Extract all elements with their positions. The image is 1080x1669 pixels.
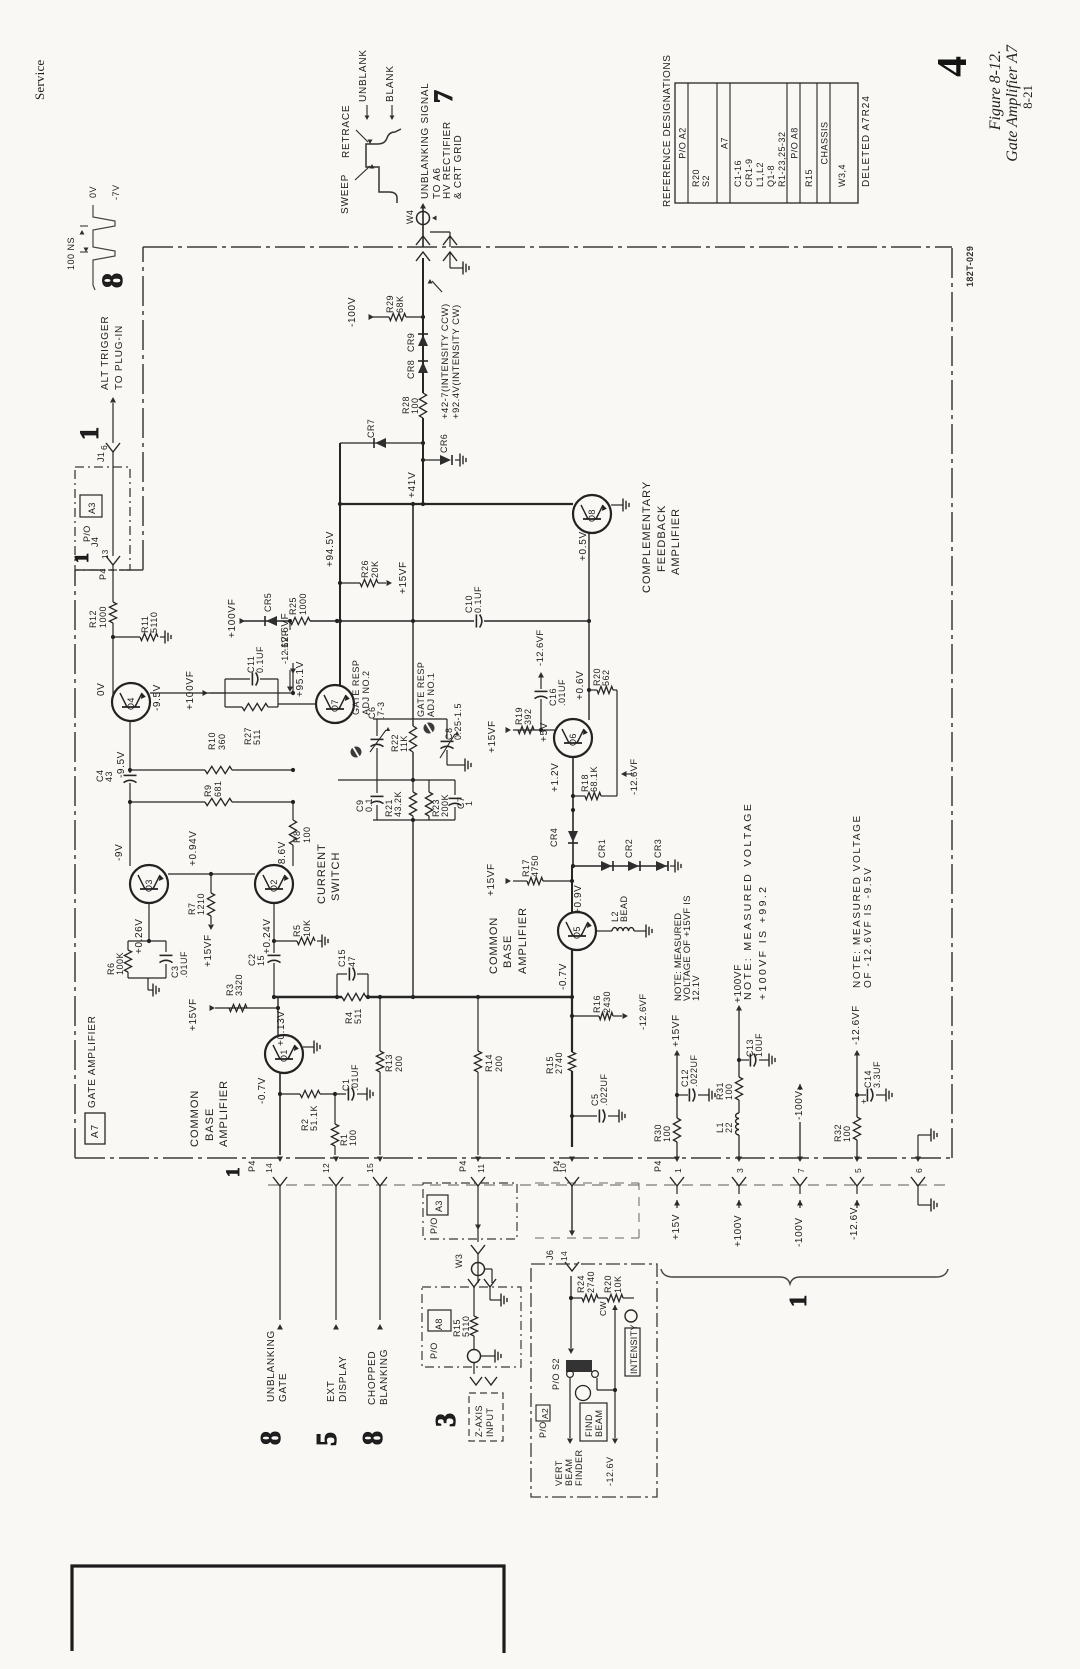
svg-text:NOTE: MEASURED VOLTAGE: NOTE: MEASURED VOLTAGE <box>852 814 863 988</box>
svg-text:CW: CW <box>598 1301 608 1316</box>
resistor R10 360 <box>130 769 205 771</box>
resistor R14 200 <box>477 997 479 1051</box>
ground of R6/C3 <box>147 978 149 990</box>
svg-text:R15: R15 <box>804 169 814 187</box>
svg-text:-12.6V: -12.6V <box>605 1456 615 1486</box>
wire through P/O A3 box <box>477 1186 479 1242</box>
svg-text:AMPLIFIER: AMPLIFIER <box>670 508 682 575</box>
svg-text:-12.6VF: -12.6VF <box>638 993 649 1030</box>
capacitor C5 .022UF to ground <box>572 1115 597 1117</box>
branch to CRT grid line <box>430 231 450 233</box>
diode CR1 <box>601 861 612 871</box>
svg-text:+15VF: +15VF <box>203 934 214 967</box>
svg-text:511: 511 <box>252 729 262 745</box>
svg-text:0.1: 0.1 <box>364 798 374 812</box>
svg-text:CHASSIS: CHASSIS <box>820 121 830 164</box>
svg-text:R5: R5 <box>292 924 302 937</box>
svg-text:AMPLIFIER: AMPLIFIER <box>517 907 529 974</box>
svg-text:1000: 1000 <box>298 593 308 615</box>
svg-text:R25: R25 <box>288 597 298 615</box>
A7 board boundary (dash-dot border) <box>143 246 952 248</box>
svg-text:COMPLEMENTARY: COMPLEMENTARY <box>641 481 653 593</box>
node R11 junction <box>111 635 115 639</box>
connector J1 pin 6 <box>106 443 120 452</box>
svg-text:13: 13 <box>101 549 110 559</box>
potentiometer R20 10K <box>607 1294 623 1301</box>
svg-text:-9.5V: -9.5V <box>116 751 127 778</box>
resistor R2 51.1K <box>280 1093 300 1095</box>
feedback branch to R18 <box>616 690 618 796</box>
svg-text:43.2K: 43.2K <box>393 791 403 817</box>
gate response adjust network rails <box>412 621 414 726</box>
chopped blanking input line <box>379 1186 381 1320</box>
svg-text:R29: R29 <box>385 295 395 313</box>
svg-text:+100VF: +100VF <box>185 670 196 710</box>
-12.6VF stub below R25 line <box>289 621 291 630</box>
svg-text:GATE: GATE <box>278 1373 289 1402</box>
svg-text:0V: 0V <box>96 683 107 696</box>
resistor R17 4750 from +15VF <box>513 880 527 882</box>
svg-text:-100V: -100V <box>794 1090 805 1120</box>
svg-text:R26: R26 <box>360 560 370 578</box>
svg-text:R14: R14 <box>484 1054 494 1072</box>
connector P4 pin 14 (unblanking gate) <box>277 1157 283 1163</box>
svg-text:8-21: 8-21 <box>1020 85 1035 109</box>
Q6 collector column <box>588 621 590 720</box>
100 NS width arrows <box>80 251 88 253</box>
svg-text:VERT: VERT <box>554 1460 564 1486</box>
svg-text:R12: R12 <box>88 610 98 628</box>
sweep gate waveform (SWEEP/RETRACE) <box>366 129 401 203</box>
connector P4 pin 15 (chopped blanking) <box>377 1157 383 1163</box>
switch P/O S2 <box>566 1360 592 1372</box>
svg-text:GATE AMPLIFIER: GATE AMPLIFIER <box>87 1015 98 1108</box>
svg-text:+15VF: +15VF <box>486 863 497 896</box>
ground after CR3 <box>669 865 671 867</box>
resistor R31 100 <box>735 1077 742 1100</box>
svg-text:8: 8 <box>358 1431 389 1445</box>
svg-text:INTENSITY: INTENSITY <box>629 1324 639 1374</box>
resistor R8 100 <box>292 802 294 820</box>
transistor Q3 <box>130 865 168 903</box>
wire R24 node down to switch <box>570 1298 572 1348</box>
svg-text:SWEEP: SWEEP <box>340 174 351 214</box>
coax W3 <box>477 1254 479 1283</box>
svg-text:+15V: +15V <box>671 1214 682 1240</box>
svg-text:A3: A3 <box>87 502 97 514</box>
main emitter bus <box>272 996 342 998</box>
power entry pin 1 (+15V) <box>674 1157 680 1163</box>
svg-text:Service: Service <box>32 60 47 100</box>
svg-text:11K: 11K <box>399 735 409 752</box>
svg-text:COMMON: COMMON <box>189 1090 201 1147</box>
connector P4 pin 11 <box>475 1157 481 1163</box>
diode CR6 to ground <box>423 459 440 461</box>
svg-text:P4: P4 <box>247 1160 257 1172</box>
svg-text:P/O: P/O <box>429 1217 439 1234</box>
box P/O A3 <box>423 1183 517 1239</box>
svg-text:-100V: -100V <box>794 1217 805 1247</box>
svg-text:+15VF: +15VF <box>188 998 199 1031</box>
svg-text:BASE: BASE <box>502 935 514 968</box>
resistor R1 100 <box>334 1094 336 1124</box>
label INTENSITY (boxed) <box>625 1328 640 1376</box>
inductor L2 BEAD to ground <box>596 930 612 932</box>
svg-text:Z-AXIS: Z-AXIS <box>474 1405 484 1437</box>
rail to current switch <box>129 802 131 866</box>
main rail from +41V node down <box>412 504 414 621</box>
svg-text:Q1: Q1 <box>279 1049 289 1062</box>
svg-text:-0.7V: -0.7V <box>558 963 569 990</box>
svg-text:22: 22 <box>724 1122 734 1133</box>
svg-text:+15VF: +15VF <box>487 720 498 753</box>
svg-text:UNBLANKING: UNBLANKING <box>266 1330 277 1402</box>
svg-text:FIND: FIND <box>584 1414 594 1437</box>
svg-text:-0.7V: -0.7V <box>257 1077 268 1104</box>
svg-text:5: 5 <box>312 1432 343 1446</box>
transistor Q7 <box>316 685 354 723</box>
svg-text:GATE RESP: GATE RESP <box>416 662 426 717</box>
svg-text:CR9: CR9 <box>406 333 416 352</box>
svg-text:P4: P4 <box>98 568 108 580</box>
connector box P/O A3 (J1/J4) <box>75 467 130 570</box>
-100V feed below border <box>799 1186 801 1194</box>
coax W4 <box>417 212 430 225</box>
svg-text:+15VF: +15VF <box>398 561 409 594</box>
svg-text:6: 6 <box>99 445 109 450</box>
svg-text:100: 100 <box>410 397 420 414</box>
label FIND BEAM (boxed) <box>580 1403 607 1441</box>
svg-text:+41V: +41V <box>407 472 418 498</box>
-12.6V feed below border <box>856 1186 858 1194</box>
Q8 ground <box>611 504 618 506</box>
unblanking gate input line <box>279 1186 281 1320</box>
ext display input line <box>335 1186 337 1320</box>
svg-text:R13: R13 <box>384 1054 394 1072</box>
svg-text:REFERENCE DESIGNATIONS: REFERENCE DESIGNATIONS <box>662 55 673 207</box>
svg-text:R9: R9 <box>203 784 213 797</box>
svg-text:DELETED A7R24: DELETED A7R24 <box>861 95 872 187</box>
svg-text:C1-16: C1-16 <box>733 160 743 187</box>
resistor R21 43.2K (inline) <box>409 792 416 816</box>
svg-text:392: 392 <box>523 708 533 725</box>
capacitor C7 1 <box>454 780 456 795</box>
J6 dashed block <box>535 1182 639 1184</box>
svg-text:P4: P4 <box>458 1160 468 1172</box>
unblanking output wire with arrow <box>422 207 424 247</box>
svg-text:100K: 100K <box>115 952 125 975</box>
svg-text:P/O: P/O <box>538 1421 548 1438</box>
svg-text:5110: 5110 <box>461 1316 471 1337</box>
svg-text:0V: 0V <box>88 186 98 198</box>
connector chevrons at border (output) <box>416 236 430 245</box>
svg-text:A3: A3 <box>434 1200 444 1212</box>
svg-text:FINDER: FINDER <box>574 1450 584 1487</box>
svg-text:+94.5V: +94.5V <box>325 531 336 567</box>
svg-text:-12.6VF: -12.6VF <box>629 758 640 795</box>
svg-text:68K: 68K <box>395 295 405 313</box>
svg-text:-12.6VF: -12.6VF <box>851 1005 862 1045</box>
svg-text:10K: 10K <box>613 1275 623 1293</box>
wire C11/R27 to Q7 base <box>278 703 317 705</box>
svg-text:W3,4: W3,4 <box>837 164 847 187</box>
svg-text:C15: C15 <box>337 949 347 967</box>
capacitor C15 47 parallel loop <box>336 974 338 997</box>
svg-text:1: 1 <box>786 1295 812 1307</box>
transistor Q4 <box>112 683 150 721</box>
svg-text:+0.9V: +0.9V <box>573 885 584 914</box>
svg-text:+100VF IS +99.2: +100VF IS +99.2 <box>757 885 769 1000</box>
svg-text:+42-7(INTENSITY CCW): +42-7(INTENSITY CCW) <box>440 303 451 419</box>
-12.6V output <box>614 1390 616 1438</box>
svg-text:.01UF: .01UF <box>350 1064 360 1091</box>
switch right pole wire <box>596 1378 598 1390</box>
capacitor C4 43 <box>129 770 131 773</box>
Q1 ground <box>303 1046 309 1048</box>
resistor R11 5110 to ground <box>113 636 140 638</box>
diode CR3 <box>656 861 667 871</box>
svg-text:J6: J6 <box>545 1250 555 1260</box>
svg-text:-12.6V: -12.6V <box>849 1207 860 1240</box>
svg-text:CR6: CR6 <box>439 434 449 453</box>
board label A7 GATE AMPLIFIER <box>85 1113 105 1144</box>
Q3 emitter to R6/C3 <box>148 903 150 941</box>
svg-text:+0.26V: +0.26V <box>134 918 145 954</box>
svg-text:AMPLIFIER: AMPLIFIER <box>218 1080 230 1147</box>
svg-text:7: 7 <box>429 90 458 103</box>
svg-text:CR4: CR4 <box>549 828 559 847</box>
svg-text:FEEDBACK: FEEDBACK <box>656 505 668 572</box>
diode CR9 <box>418 335 428 346</box>
svg-text:UNBLANK: UNBLANK <box>358 49 369 102</box>
svg-text:8: 8 <box>256 1431 287 1445</box>
resistor R22 11K (inline) <box>409 726 416 752</box>
coax jack in A8 <box>468 1350 481 1363</box>
diode CR2 <box>628 861 639 871</box>
transistor Q2 <box>255 865 293 903</box>
capacitor C9 0.1 <box>376 780 378 793</box>
svg-text:1210: 1210 <box>196 893 206 915</box>
output arrow from switch <box>569 1378 571 1438</box>
-12.6VF arrow at feedback branch <box>621 771 627 777</box>
svg-text:+95.1V: +95.1V <box>295 661 306 697</box>
svg-text:P/O A2: P/O A2 <box>678 127 688 159</box>
svg-text:562: 562 <box>601 669 611 686</box>
main column Q6 emitter to Q5 <box>571 866 573 913</box>
svg-text:CR3: CR3 <box>653 839 663 858</box>
svg-text:R16: R16 <box>592 995 602 1013</box>
svg-text:1: 1 <box>71 553 93 563</box>
svg-text:Q4: Q4 <box>126 697 136 710</box>
+100V feed below border <box>738 1186 740 1194</box>
resistor R23 200K <box>428 780 430 792</box>
svg-text:3: 3 <box>431 1413 462 1427</box>
svg-text:+1.2V: +1.2V <box>550 763 561 792</box>
svg-text:ADJ NO.1: ADJ NO.1 <box>426 672 436 717</box>
svg-text:BEAM: BEAM <box>564 1458 574 1486</box>
svg-text:CHOPPED: CHOPPED <box>367 1351 378 1405</box>
+15V feed below border <box>676 1186 678 1194</box>
svg-text:15: 15 <box>256 955 266 966</box>
C10 coupling line +100VF/CR5/R25 <box>243 620 290 622</box>
svg-text:TO PLUG-IN: TO PLUG-IN <box>114 325 125 390</box>
svg-text:Figure 8-12.: Figure 8-12. <box>987 50 1004 131</box>
svg-text:100: 100 <box>662 1125 672 1142</box>
Q2 emitter node <box>273 903 275 941</box>
svg-text:5110: 5110 <box>149 612 159 633</box>
svg-text:-7V: -7V <box>111 184 121 200</box>
box Z-AXIS INPUT <box>469 1393 503 1441</box>
svg-text:100: 100 <box>348 1129 358 1146</box>
trigger pulse waveform (100 NS) <box>93 205 115 290</box>
svg-text:Q2: Q2 <box>269 879 279 892</box>
capacitor C13 10UF <box>739 1059 749 1061</box>
Q1 emitter wire <box>279 1073 281 1155</box>
resistor R32 100 <box>853 1117 860 1140</box>
svg-text:EXT: EXT <box>326 1380 337 1402</box>
connector chevron below A3 box <box>471 1245 485 1254</box>
svg-text:200: 200 <box>394 1055 404 1072</box>
resistor R15 2740 (inline) <box>568 1052 575 1071</box>
+100VF feed to C11/R27 <box>210 692 225 694</box>
resistor R19 392 from +15VF <box>513 729 555 731</box>
resistor R25 1000 <box>290 617 310 624</box>
svg-text:+100V: +100V <box>733 1215 744 1247</box>
svg-text:14: 14 <box>264 1163 274 1173</box>
resistor R20 562 <box>589 689 597 691</box>
resistor R5 10K to ground <box>274 940 297 942</box>
svg-text:P4: P4 <box>653 1160 663 1172</box>
R20 wiper <box>612 1305 618 1310</box>
capacitor C1 .01UF to ground <box>347 1088 349 1101</box>
reference designations table <box>675 83 858 203</box>
svg-text:GATE RESP: GATE RESP <box>351 660 361 715</box>
resistor R4 511 on bus <box>342 993 366 1000</box>
svg-text:14: 14 <box>559 1251 569 1261</box>
svg-text:-12.6VF: -12.6VF <box>280 630 290 664</box>
svg-text:12.1V: 12.1V <box>691 975 702 1001</box>
svg-text:CR1: CR1 <box>597 839 607 858</box>
svg-text:51.1K: 51.1K <box>309 1105 319 1131</box>
wire pin10 to J6 <box>571 1186 573 1232</box>
svg-text:W4: W4 <box>405 210 415 224</box>
svg-text:8: 8 <box>96 273 129 288</box>
svg-text:15: 15 <box>365 1163 375 1173</box>
svg-text:Q8: Q8 <box>587 509 597 522</box>
svg-text:P/O A8: P/O A8 <box>790 127 800 159</box>
svg-text:P/O S2: P/O S2 <box>551 1358 561 1390</box>
svg-text:OF -12.6VF IS -9.5V: OF -12.6VF IS -9.5V <box>863 866 874 988</box>
svg-text:CR5: CR5 <box>263 593 273 612</box>
rail from network to bus <box>412 820 414 997</box>
svg-text:2740: 2740 <box>586 1271 596 1293</box>
svg-text:Gate Amplifier A7: Gate Amplifier A7 <box>1004 44 1021 162</box>
svg-text:-9.5V: -9.5V <box>152 684 163 711</box>
capacitor C10 0.1UF <box>475 615 477 628</box>
collector bus +41V line <box>340 503 573 505</box>
variable capacitor C6 .7-3 <box>376 719 378 736</box>
diode CR4 <box>568 831 578 842</box>
svg-text:S2: S2 <box>701 175 711 187</box>
Q5 emitter column <box>571 950 573 1052</box>
svg-text:.01UF: .01UF <box>179 951 189 978</box>
svg-text:200: 200 <box>494 1055 504 1072</box>
Z-axis connector chevrons <box>470 1377 482 1385</box>
beam finder lamp <box>576 1386 591 1401</box>
svg-text:+100VF: +100VF <box>227 598 238 638</box>
Q4 collector line <box>150 692 293 694</box>
resistor R30 100 <box>673 1118 680 1142</box>
svg-text:-9V: -9V <box>114 844 125 861</box>
svg-text:0.25-1.5: 0.25-1.5 <box>453 703 463 740</box>
svg-text:0.1UF: 0.1UF <box>255 646 265 673</box>
power entry pin 7 (-100V) <box>797 1157 803 1163</box>
diode CR5 <box>266 616 277 626</box>
svg-text:BEAM: BEAM <box>594 1409 604 1437</box>
svg-text:6: 6 <box>914 1168 924 1173</box>
front panel knob (intensity) <box>625 1310 637 1322</box>
svg-text:CR1-9: CR1-9 <box>744 158 754 187</box>
svg-text:.022UF: .022UF <box>689 1054 699 1087</box>
svg-text:CR7: CR7 <box>366 419 376 438</box>
node CR clamp line <box>571 864 575 868</box>
resistor R26 20K to +15VF <box>340 582 360 584</box>
svg-text:A8: A8 <box>434 1318 444 1330</box>
svg-text:A7: A7 <box>720 137 730 149</box>
svg-text:.7-3: .7-3 <box>376 701 386 719</box>
svg-text:R1-23,25-32: R1-23,25-32 <box>777 131 787 187</box>
connector mating line P4 (dashed) <box>268 1184 948 1186</box>
svg-text:5: 5 <box>853 1168 863 1173</box>
svg-text:+0.6V: +0.6V <box>575 671 586 700</box>
svg-text:Q3: Q3 <box>144 879 154 892</box>
resistor R29 68K to -100V <box>372 316 389 318</box>
wire through J1/J4 box <box>112 452 114 556</box>
svg-text:20K: 20K <box>370 560 380 578</box>
box P/O A2 VERT BEAM FINDER (dash-dot) <box>531 1264 657 1497</box>
svg-text:3.3UF: 3.3UF <box>872 1061 882 1088</box>
svg-text:+15VF: +15VF <box>671 1014 682 1047</box>
-12.6VF feed at Q4 collector rail <box>292 663 294 693</box>
svg-text:360: 360 <box>217 733 227 750</box>
svg-text:1: 1 <box>464 800 474 806</box>
transistor Q5 <box>558 912 596 950</box>
transistor Q8 <box>573 495 611 533</box>
transistor Q1 <box>265 1035 303 1073</box>
resistor R24 2740 <box>571 1297 582 1299</box>
split to A8 box connectors <box>485 1268 492 1270</box>
svg-text:HV RECTIFIER: HV RECTIFIER <box>442 121 453 199</box>
wire to ALT TRIGGER with arrow <box>112 403 114 443</box>
svg-text:Q7: Q7 <box>330 699 340 712</box>
resistor R15 5110 (A8) <box>473 1287 475 1316</box>
resistor R28 100 <box>419 393 426 418</box>
svg-text:100: 100 <box>302 826 312 843</box>
Q7 collector column +94.5V <box>339 443 341 686</box>
svg-text:UNBLANKING SIGNAL: UNBLANKING SIGNAL <box>420 83 431 199</box>
svg-text:10: 10 <box>558 1163 568 1173</box>
svg-text:Q6: Q6 <box>568 733 578 746</box>
capacitor C2 15 <box>273 941 275 953</box>
resistor R16 2430 to -12.6VF <box>572 1015 599 1017</box>
network R6 100K parallel C3 .01UF <box>128 940 166 942</box>
ground at output connector <box>449 252 451 268</box>
svg-text:1: 1 <box>75 427 104 440</box>
svg-text:2430: 2430 <box>602 991 612 1013</box>
resistor R9 681 <box>130 801 205 803</box>
resistor R12 1000 <box>112 565 114 602</box>
svg-text:4: 4 <box>930 56 976 77</box>
